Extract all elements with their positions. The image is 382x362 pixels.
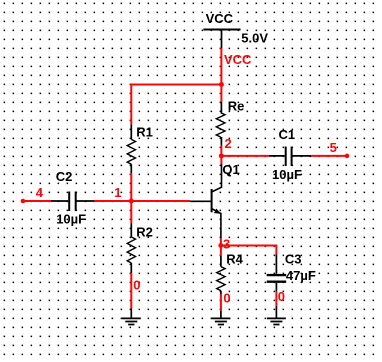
svg-text:R2: R2 — [136, 224, 153, 239]
svg-text:47µF: 47µF — [286, 268, 316, 283]
svg-text:VCC: VCC — [224, 52, 252, 67]
svg-text:R4: R4 — [226, 251, 243, 266]
svg-text:3: 3 — [223, 236, 230, 251]
svg-text:5.0V: 5.0V — [241, 30, 268, 45]
svg-text:Re: Re — [228, 99, 245, 114]
svg-text:1: 1 — [114, 185, 121, 200]
svg-text:C2: C2 — [56, 169, 73, 184]
svg-text:Q1: Q1 — [222, 162, 239, 177]
svg-text:5: 5 — [330, 140, 337, 155]
svg-text:10µF: 10µF — [272, 167, 302, 182]
svg-text:R1: R1 — [136, 125, 153, 140]
svg-text:2: 2 — [225, 136, 232, 151]
svg-text:0: 0 — [133, 278, 140, 293]
svg-text:4: 4 — [36, 185, 44, 200]
svg-text:VCC: VCC — [206, 11, 234, 26]
svg-text:10µF: 10µF — [56, 212, 86, 227]
svg-text:C3: C3 — [285, 252, 302, 267]
svg-text:0: 0 — [278, 289, 285, 304]
svg-text:0: 0 — [223, 290, 230, 305]
svg-text:C1: C1 — [279, 127, 296, 142]
